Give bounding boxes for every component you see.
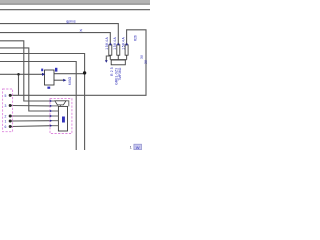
connector module P1 dashed box bbox=[3, 89, 13, 132]
wire crystal right pin2 arrow stub bbox=[54, 79, 63, 81]
wire vertical from H8 junction down to pin1 wire bbox=[18, 74, 20, 95]
svg-text:TMP36G: TMP36G bbox=[118, 67, 122, 80]
svg-text:W: W bbox=[136, 145, 140, 150]
pin mark below crystal bbox=[47, 87, 50, 89]
row stubs from arrows into IC bbox=[51, 101, 58, 126]
arrow terminal on crystal right pin2 bbox=[63, 79, 66, 82]
wire net H5 down x28.8 to U2 row3 bbox=[0, 48, 51, 111]
wire row3 stub bbox=[51, 110, 58, 112]
pin 1 dot bbox=[9, 94, 12, 97]
wire net H2 to resistor R2 column bbox=[0, 24, 118, 45]
wire net H6 down x84.8 to bottom bbox=[0, 54, 85, 151]
resistor R23 body bbox=[109, 45, 112, 55]
junction dot at x18.5 y74 bbox=[17, 73, 20, 76]
wire row4 stub bbox=[51, 115, 58, 117]
wire resistor bottoms bar bbox=[110, 55, 126, 60]
wire L-stub with down arrow from R1 bottom bbox=[106, 56, 110, 61]
wire long net y95 from pin1 to right vertical bbox=[12, 30, 147, 96]
svg-text:R26: R26 bbox=[134, 35, 138, 41]
resistor R22 body bbox=[125, 45, 128, 55]
pin 4 dot bbox=[9, 120, 12, 123]
arrowhead row1 bbox=[50, 100, 53, 102]
pin dot R22 top bbox=[126, 43, 128, 45]
pin 2 dot bbox=[9, 104, 12, 107]
svg-text:R25: R25 bbox=[110, 67, 114, 76]
svg-text:gpi/xs: gpi/xs bbox=[66, 20, 76, 24]
pin 3 dot bbox=[9, 115, 12, 118]
wire pin4 row bbox=[12, 120, 52, 122]
svg-text:2: 2 bbox=[5, 115, 7, 119]
wire net H8 to crystal arrow bbox=[0, 73, 43, 75]
arrowhead row3 bbox=[50, 110, 53, 112]
wire net H4 down x23.8 to U2 row1 bbox=[0, 41, 51, 101]
wire net H1 top bbox=[0, 9, 150, 11]
svg-text:3: 3 bbox=[5, 104, 7, 108]
pin dot R24 top bbox=[117, 43, 119, 45]
wire net H7 down x75.7 to bottom bbox=[0, 62, 76, 151]
arrow terminal into crystal left pin bbox=[42, 73, 45, 76]
wire pin3 row bbox=[12, 115, 52, 117]
wire crystal right pin to x84.6 junction bbox=[54, 73, 85, 75]
svg-text:15K4A: 15K4A bbox=[105, 36, 109, 49]
svg-text:xt: xt bbox=[80, 28, 83, 32]
resistor R24 body bbox=[117, 45, 120, 55]
wire row6 stub bbox=[51, 125, 58, 127]
svg-text:MISO: MISO bbox=[68, 76, 72, 85]
arrowhead row2 bbox=[50, 105, 53, 107]
arrowhead row6 bbox=[50, 125, 53, 127]
pin dot R23 top bbox=[109, 43, 111, 45]
svg-text:1: 1 bbox=[5, 120, 7, 124]
svg-text:15K4A: 15K4A bbox=[122, 36, 126, 49]
wire from trapezoid to IC right bbox=[66, 101, 69, 107]
arrowhead row5 bbox=[50, 120, 53, 122]
speaker trapezoid bbox=[55, 101, 66, 105]
arrowhead row4 bbox=[50, 115, 53, 117]
top toolbar remnant band bbox=[0, 0, 150, 3]
wire row2 stub bbox=[51, 105, 58, 107]
pin 5 dot bbox=[9, 125, 12, 128]
wire row1 stub bbox=[51, 100, 56, 102]
label U2 inside IC bbox=[62, 117, 65, 123]
svg-text:15K4A: 15K4A bbox=[113, 36, 117, 49]
wire row5 stub bbox=[51, 120, 58, 122]
wire trapezoid bottom to IC top bbox=[59, 105, 61, 107]
svg-text:6: 6 bbox=[5, 125, 7, 129]
junction dot at x84.6 y72.9 bbox=[83, 71, 86, 74]
wire net H3 to resistor R1 column bbox=[0, 33, 110, 45]
IC U2 body bbox=[58, 106, 67, 131]
wire pin2 row bbox=[12, 105, 52, 107]
wire pin5 row bbox=[12, 125, 52, 128]
module M2 dashed box bbox=[50, 99, 72, 134]
bottom-right W tag box bbox=[134, 144, 142, 150]
pin mark top-right of crystal bbox=[55, 68, 57, 72]
resistor R25 flat body bbox=[111, 60, 125, 65]
crystal X1 body bbox=[45, 70, 55, 85]
svg-text:5: 5 bbox=[5, 94, 7, 98]
arrow terminal down from R1 bottom stub bbox=[105, 60, 108, 63]
pin mark above-left of crystal bbox=[41, 69, 43, 72]
